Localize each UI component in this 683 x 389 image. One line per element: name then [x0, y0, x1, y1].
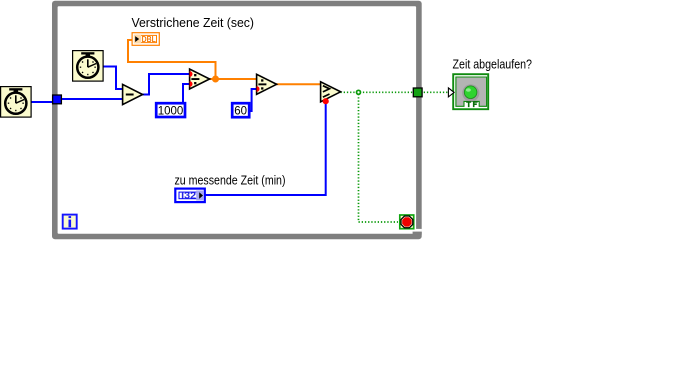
while loop border — [52, 1, 422, 239]
coercion dot divide2 lower input — [257, 86, 260, 92]
wire: constant 1000 to divide1 lower input — [183, 84, 190, 103]
svg-text:Verstrichene Zeit (sec): Verstrichene Zeit (sec) — [132, 15, 255, 30]
wire: inner tick count to subtract upper input — [104, 67, 124, 90]
I32 control terminal — [175, 189, 205, 203]
tunnel: blue input tunnel on loop left border — [53, 95, 62, 104]
greater-or-equal function — [321, 82, 341, 104]
loop border corner notch near condition terminal — [416, 229, 422, 232]
wire: constant 60 to divide2 lower input — [250, 89, 257, 111]
TF label — [466, 102, 477, 107]
svg-text:I32: I32 — [181, 190, 196, 200]
coercion dot divide1 lower input — [190, 81, 193, 87]
wire: greater-or-equal output to boolean indicator (dotted) — [341, 91, 451, 93]
svg-text:DBL: DBL — [142, 34, 156, 44]
divide function 1 — [190, 69, 210, 89]
wire: divide1 output to divide2 upper input — [209, 78, 257, 80]
wire: I32 control to greater-or-equal lower input — [205, 101, 326, 195]
coercion dot divide1 upper input — [190, 71, 193, 77]
tunnel: green output tunnel on loop right border — [413, 88, 422, 97]
boolean indicator terminal Zeit abgelaufen? — [448, 74, 488, 109]
wire: subtract output to divide1 upper input — [142, 74, 191, 95]
loop iteration terminal i — [63, 215, 77, 229]
wire: left tunnel to subtract lower input — [61, 98, 123, 100]
svg-text:zu messende Zeit (min): zu messende Zeit (min) — [175, 173, 286, 188]
wire: boolean junction down to loop condition terminal (dotted) — [359, 94, 399, 222]
constant 60 — [232, 103, 249, 117]
wire: junction to DBL indicator — [128, 40, 216, 79]
loop condition terminal (stop sign) — [400, 215, 414, 229]
indicator input arrow — [448, 88, 454, 97]
coercion dot greater-or-equal lower input — [323, 98, 329, 104]
tick count (ms) function U1 (outside loop) — [1, 87, 32, 118]
divide function 2 — [257, 74, 277, 94]
tick count (ms) function U2 (inside loop) — [73, 51, 104, 82]
constant 1000 — [156, 103, 185, 117]
svg-text:60: 60 — [234, 106, 247, 118]
junction: orange wire junction dot — [212, 76, 219, 83]
junction: boolean wire junction ring — [357, 90, 361, 94]
wire: divide2 output to greater-or-equal upper input — [276, 83, 321, 85]
svg-text:1000: 1000 — [158, 106, 184, 118]
wire: outer tick count to left tunnel — [31, 101, 53, 103]
DBL indicator terminal — [132, 33, 159, 46]
svg-text:Zeit abgelaufen?: Zeit abgelaufen? — [453, 57, 533, 72]
subtract function — [123, 84, 143, 104]
